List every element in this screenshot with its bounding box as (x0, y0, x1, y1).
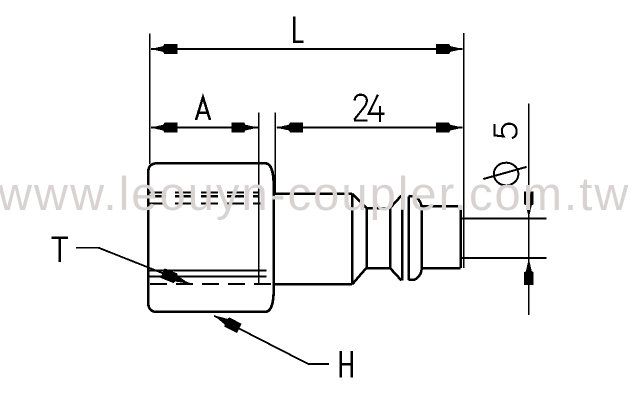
extension line right (x=463.7) (463, 33, 465, 268)
phi5 dimension line vertical (528, 103, 530, 315)
thread line solid bottom 1 (149, 270, 266, 272)
leader H (214, 316, 329, 364)
dimension line L (151, 48, 463, 50)
arrow phi5 top (points down) (524, 191, 534, 218)
hex nut outline (148, 163, 273, 312)
chamfer top (352, 194, 366, 208)
leader T (76, 248, 190, 284)
plug cylinder 1 top (274, 193, 352, 196)
arrow L left (150, 44, 177, 54)
arrow 24 left (276, 123, 303, 133)
label A (196, 97, 210, 120)
extension line A-right (x=258.8) (258, 113, 260, 285)
label 24 digit 4 (369, 95, 385, 122)
arrow phi5 bottom (points up) (524, 258, 534, 285)
end face x=460.7 (459, 206, 462, 268)
face at x=352 (351, 194, 354, 284)
ramp top (390, 196, 401, 208)
edge of revolution x=366.8 (366, 208, 369, 268)
groove land top (366, 207, 390, 210)
thread line dashed top 1 (149, 195, 259, 197)
arrow L right (436, 44, 463, 54)
extension line left (x=150) (149, 34, 151, 165)
label H (341, 351, 352, 378)
ridge2 bottom cap and curve (409, 270, 422, 280)
plug cylinder 1 bottom (274, 283, 352, 286)
arrow A left (150, 123, 177, 133)
edge of revolution x=390 (389, 208, 392, 268)
label phi slash (483, 167, 526, 179)
nose top / phi5 extension top (461, 217, 547, 219)
thread line dashed bottom (150, 283, 273, 285)
cylinder 2 top (422, 205, 461, 208)
ridge1 right face x=402 (401, 196, 404, 281)
label 5 rotated (494, 124, 516, 138)
watermark (0, 166, 630, 221)
ramp bottom (390, 268, 401, 280)
label L (294, 17, 304, 42)
ridge2 left face x=408.7 (407, 196, 410, 280)
cylinder 2 bottom (422, 267, 461, 270)
label T (52, 238, 68, 262)
extension line 24-left (x=275.3) (274, 113, 276, 195)
groove land bottom (366, 267, 390, 270)
arrow T leader (161, 268, 192, 288)
arrow A right (231, 123, 258, 133)
nose bottom / phi5 extension bottom (461, 257, 547, 259)
dimension line A (151, 127, 258, 129)
arrow 24 right (436, 123, 463, 133)
dimension line 24 (277, 127, 463, 129)
thread line dashed top 2 (149, 202, 261, 204)
thread line solid top (149, 191, 259, 193)
chamfer bottom (352, 268, 366, 284)
label phi circle (494, 163, 519, 186)
label 24 digit 2 (354, 95, 368, 121)
edge of revolution x=421.5 (420, 206, 423, 270)
thread line solid bottom 2 (149, 275, 266, 277)
ridge2 top cap and curve (409, 196, 422, 206)
arrow H leader (211, 311, 242, 333)
